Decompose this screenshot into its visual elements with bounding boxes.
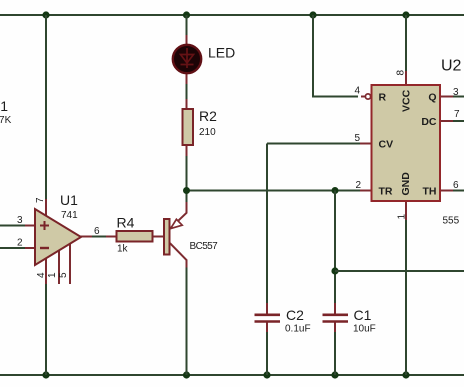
node: junction TR net at x=335 xyxy=(332,187,339,194)
pin 7 stub xyxy=(45,199,47,216)
node: junction TH link at (335,271) xyxy=(331,267,338,274)
wire: C1 bottom to ground rail xyxy=(334,331,336,375)
svg-text:U2: U2 xyxy=(441,58,462,75)
bottom plate xyxy=(323,320,349,323)
svg-text:TR: TR xyxy=(379,186,393,198)
node: junction bottom rail at x=335 xyxy=(331,371,338,378)
op-amp U1 741 xyxy=(17,192,100,284)
top stub xyxy=(334,303,336,314)
collector diagonal xyxy=(170,243,187,267)
top stub xyxy=(186,99,188,110)
wire: R2 to emitter node xyxy=(186,155,188,191)
wire: CV net horizontal to C2 xyxy=(267,143,362,145)
svg-text:DC: DC xyxy=(421,116,437,128)
svg-text:U1: U1 xyxy=(60,192,78,208)
pin 5 stub xyxy=(69,243,71,284)
bottom stub xyxy=(334,321,336,332)
bottom stub xyxy=(186,144,188,156)
node: junction bottom rail at x=186 xyxy=(183,371,190,378)
pin 3 stub xyxy=(25,225,36,227)
pin 4 stub xyxy=(45,257,47,284)
pin 7 DC stub xyxy=(439,120,453,122)
wire: DC to right edge xyxy=(452,120,464,122)
svg-text:6: 6 xyxy=(453,180,459,191)
wire: rail down to reset corner xyxy=(313,15,358,97)
svg-text:R: R xyxy=(379,92,387,104)
pin 8 VCC stub xyxy=(405,71,407,86)
wire: TH to right edge xyxy=(452,190,464,192)
svg-text:3: 3 xyxy=(453,87,459,98)
svg-text:10uF: 10uF xyxy=(353,324,376,335)
wire: rail down to LED anode xyxy=(186,15,188,36)
minus symbol xyxy=(40,247,49,249)
emitter arrow (open) xyxy=(171,219,183,228)
plus symbol xyxy=(40,221,49,230)
svg-text:RV1: RV1 xyxy=(0,98,8,114)
wire: op-amp pin 4 down to ground rail xyxy=(45,283,47,375)
resistor R2 xyxy=(183,99,218,156)
diode symbol inside xyxy=(181,48,194,68)
node: junction bottom rail at x=267 xyxy=(263,371,270,378)
wire: LED cathode to R2 xyxy=(186,82,188,100)
svg-text:1: 1 xyxy=(397,214,408,220)
svg-text:4: 4 xyxy=(354,86,360,97)
pin 2 TR stub xyxy=(360,190,372,192)
svg-text:555: 555 xyxy=(443,216,460,227)
svg-text:CV: CV xyxy=(379,139,394,151)
capacitor C2 xyxy=(255,303,311,335)
svg-text:VCC: VCC xyxy=(401,89,413,112)
svg-text:6: 6 xyxy=(94,226,100,237)
body xyxy=(372,85,441,201)
node: junction top rail at x=186 xyxy=(183,11,190,18)
svg-text:8: 8 xyxy=(396,70,407,76)
node: junction emitter/TR net xyxy=(183,187,190,194)
bottom plate xyxy=(255,320,281,323)
top plate xyxy=(323,313,349,316)
svg-text:TH: TH xyxy=(423,186,437,198)
node: junction top rail at x=406 xyxy=(402,11,409,18)
wire: TR net horizontal (emitter node to U2 TR pin) xyxy=(187,190,363,192)
wire: TH link horizontal to right edge xyxy=(335,270,464,272)
wire: op-amp pin3 from left edge xyxy=(0,225,26,227)
svg-text:R2: R2 xyxy=(199,108,217,124)
node: junction bottom rail at x=406 xyxy=(402,371,409,378)
svg-text:BC557: BC557 xyxy=(190,241,219,252)
reset inversion bubble xyxy=(365,94,370,99)
svg-text:1k: 1k xyxy=(117,244,129,255)
resistor R4 xyxy=(106,215,165,255)
pin 5 CV stub xyxy=(360,143,372,145)
cathode stub xyxy=(186,72,188,84)
base bar xyxy=(164,219,170,255)
svg-text:C1: C1 xyxy=(354,307,372,323)
svg-text:2: 2 xyxy=(17,238,23,249)
wire: C2 vertical from CV net down xyxy=(266,144,268,305)
pin 1 GND stub xyxy=(405,200,407,220)
right stub (to base) xyxy=(152,236,165,238)
svg-text:47K: 47K xyxy=(0,115,12,126)
pin 2 stub xyxy=(25,247,36,249)
svg-text:7: 7 xyxy=(454,109,460,120)
LED D1 xyxy=(173,35,235,84)
wire: collector down to ground rail xyxy=(186,267,188,376)
body xyxy=(183,109,194,145)
pin 1 stub xyxy=(58,250,60,284)
wire: C2 bottom to ground rail xyxy=(266,331,268,375)
svg-text:5: 5 xyxy=(354,133,360,144)
svg-text:1: 1 xyxy=(47,272,58,278)
timer IC U2 555 xyxy=(354,58,461,227)
potentiometer RV1 label (cut off at left edge) xyxy=(0,98,12,126)
svg-text:R4: R4 xyxy=(117,215,135,231)
wire: V+ rail down to op-amp pin 7 xyxy=(45,15,47,201)
wire: emitter node short drop xyxy=(186,191,188,204)
anode stub xyxy=(186,35,188,46)
svg-text:5: 5 xyxy=(58,272,69,278)
emitter diagonal xyxy=(170,202,186,228)
wire: TR/TH/C1 vertical xyxy=(334,191,336,305)
wire: top power rail xyxy=(0,14,464,16)
pin 6 TH stub xyxy=(439,190,453,192)
pin 4 R stub xyxy=(361,96,365,98)
bottom stub xyxy=(266,321,268,332)
body xyxy=(117,231,153,242)
svg-text:GND: GND xyxy=(400,172,412,196)
wire: op-amp output to R4 xyxy=(91,236,107,238)
svg-text:210: 210 xyxy=(199,127,216,138)
svg-text:C2: C2 xyxy=(286,307,304,323)
left stub xyxy=(106,236,117,238)
capacitor C1 xyxy=(323,303,376,335)
svg-text:LED: LED xyxy=(208,45,235,61)
node: junction top rail at x=315 xyxy=(309,11,316,18)
top stub xyxy=(266,303,268,314)
pin 3 Q stub xyxy=(439,96,453,98)
svg-text:2: 2 xyxy=(355,180,361,191)
wire: op-amp pin2 from left edge xyxy=(0,247,26,249)
svg-text:0.1uF: 0.1uF xyxy=(285,324,311,335)
node: junction top rail at x=46 xyxy=(42,11,49,18)
svg-text:4: 4 xyxy=(36,272,47,278)
top plate xyxy=(255,313,281,316)
LED body circle xyxy=(173,45,201,73)
svg-text:741: 741 xyxy=(61,210,78,221)
wire: bottom ground rail xyxy=(0,374,464,376)
svg-text:Q: Q xyxy=(428,92,436,104)
transistor Q1 BC557 xyxy=(164,202,218,268)
svg-text:3: 3 xyxy=(17,215,23,226)
wire: rail down to U2 VCC pin 8 xyxy=(405,15,407,73)
wire: U2 GND pin 1 down to ground rail xyxy=(405,219,407,375)
triangle body xyxy=(35,209,81,265)
svg-text:7: 7 xyxy=(35,197,46,203)
node: junction bottom rail at x=46 xyxy=(42,371,49,378)
pin 6 output stub xyxy=(80,236,92,238)
wire: Q output to right edge xyxy=(452,96,464,98)
